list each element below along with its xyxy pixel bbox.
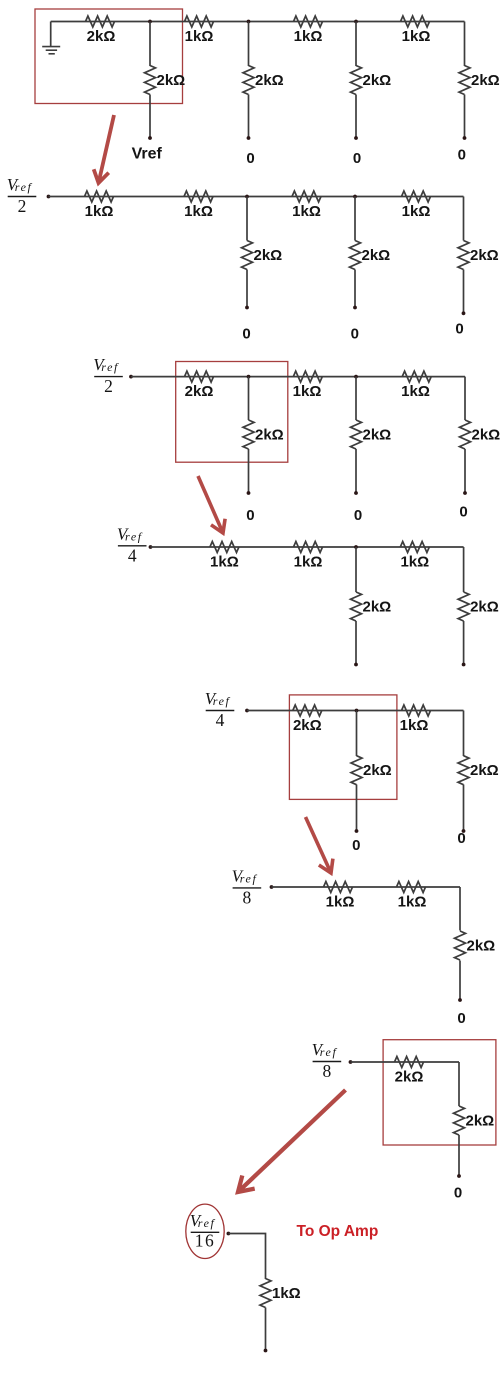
wire: stage5 shunt D upper — [463, 711, 465, 757]
resistor 2kΩ stage7 shunt — [454, 1106, 465, 1135]
svg-text:2kΩ: 2kΩ — [87, 28, 116, 45]
resistor 1kΩ stage1 series #4 — [401, 16, 430, 27]
svg-text:2kΩ: 2kΩ — [471, 72, 500, 89]
svg-text:4: 4 — [128, 545, 137, 565]
resistor 2kΩ stage3 shunt D — [460, 420, 471, 449]
svg-text:0: 0 — [457, 830, 465, 847]
wire: stage2 shunt C upper — [354, 197, 356, 241]
wire: stage1 shunt branch B upper — [248, 22, 250, 67]
svg-text:2kΩ: 2kΩ — [470, 247, 499, 264]
svg-text:0: 0 — [353, 150, 361, 167]
node stage4 input — [149, 545, 153, 549]
svg-text:8: 8 — [243, 887, 252, 907]
svg-text:ref: ref — [198, 1216, 216, 1230]
resistor 2kΩ stage3 shunt C — [351, 420, 362, 449]
red arrow stage7 to final — [238, 1090, 346, 1192]
node stage3 input — [129, 375, 133, 379]
resistor 1kΩ stage4 #1 — [210, 542, 239, 553]
wire: stage1 shunt branch A upper — [149, 22, 151, 67]
wire: stage2 shunt C lower — [354, 270, 356, 308]
resistor 1kΩ stage4 #3 — [400, 542, 429, 553]
node stage6 input — [270, 885, 274, 889]
resistor 2kΩ stage1 shunt D — [459, 66, 470, 95]
red arrow stage1 to stage2 — [94, 115, 114, 183]
wire: stage1 shunt branch D lower — [464, 95, 466, 139]
red highlight box around stage1 ground + 2k/2k section — [35, 9, 183, 104]
resistor 1kΩ stage2 #2 — [184, 191, 213, 202]
resistor 1kΩ stage3 #2 — [293, 371, 322, 382]
terminal stage7 — [457, 1174, 461, 1178]
resistor 2kΩ stage2 shunt D — [458, 241, 469, 270]
label fraction Vref/16 final — [190, 1211, 220, 1251]
resistor 1kΩ stage1 series #3 — [294, 16, 323, 27]
wire: stage4 top rail — [151, 546, 464, 548]
wire: stage1 ground stem — [50, 22, 52, 47]
resistor 2kΩ stage3 shunt B — [243, 420, 254, 449]
terminal stage1 A — [148, 136, 152, 140]
wire: stage4 shunt C lower — [355, 621, 357, 665]
svg-text:2kΩ: 2kΩ — [254, 247, 283, 264]
resistor 2kΩ stage1 series (leftmost) — [86, 16, 115, 27]
wire: stage2 shunt B lower — [246, 270, 248, 308]
resistor 2kΩ stage2 shunt C — [350, 241, 361, 270]
label fraction Vref/8 stage7 — [312, 1040, 342, 1081]
resistor 1kΩ stage4 #2 — [294, 542, 323, 553]
svg-text:0: 0 — [351, 325, 359, 342]
svg-text:ref: ref — [213, 694, 231, 708]
wire: stage1 shunt branch D upper — [464, 22, 466, 67]
terminal stage1 C — [354, 136, 358, 140]
wire: stage3 top rail — [131, 376, 465, 378]
ground symbol — [42, 47, 60, 54]
svg-text:1kΩ: 1kΩ — [400, 717, 429, 734]
wire: stage1 shunt branch B lower — [248, 95, 250, 139]
svg-text:1kΩ: 1kΩ — [401, 383, 430, 400]
svg-text:0: 0 — [459, 503, 467, 520]
node stage3-B junction — [247, 375, 251, 379]
svg-text:1kΩ: 1kΩ — [402, 203, 431, 220]
svg-text:0: 0 — [354, 507, 362, 524]
svg-text:1kΩ: 1kΩ — [210, 554, 239, 571]
svg-text:4: 4 — [216, 710, 225, 730]
svg-text:16: 16 — [195, 1230, 216, 1250]
svg-text:ref: ref — [320, 1045, 338, 1059]
terminal stage3 D — [463, 491, 467, 495]
terminal stage2 D — [462, 311, 466, 315]
wire: stage1 shunt branch A lower — [149, 95, 151, 139]
svg-text:2kΩ: 2kΩ — [363, 427, 392, 444]
wire: stage1 shunt branch C lower — [355, 95, 357, 139]
resistor 1kΩ stage3 #3 — [402, 371, 431, 382]
wire: stage6 top rail — [272, 886, 461, 888]
red ellipse around Vref/16 — [186, 1204, 224, 1258]
label fraction Vref/4 stage5 — [205, 689, 235, 730]
node stage5-C junction — [355, 709, 359, 713]
svg-text:1kΩ: 1kΩ — [400, 554, 429, 571]
resistor 2kΩ stage4 shunt C — [351, 592, 362, 621]
svg-text:2kΩ: 2kΩ — [185, 383, 214, 400]
wire: stage2 shunt D upper — [463, 197, 465, 241]
wire: stage4 shunt D upper — [463, 547, 465, 592]
svg-text:1kΩ: 1kΩ — [294, 554, 323, 571]
svg-text:0: 0 — [242, 325, 250, 342]
svg-text:0: 0 — [455, 321, 463, 338]
svg-text:2kΩ: 2kΩ — [395, 1069, 424, 1086]
terminal stage4 C — [354, 663, 358, 667]
wire: stage7 top rail — [351, 1061, 460, 1063]
wire: stage1 top rail — [51, 21, 465, 23]
svg-text:To Op Amp: To Op Amp — [297, 1223, 379, 1240]
label fraction Vref/8 stage6 — [232, 866, 262, 907]
svg-text:0: 0 — [246, 150, 254, 167]
svg-text:1kΩ: 1kΩ — [292, 203, 321, 220]
svg-text:1kΩ: 1kΩ — [326, 894, 355, 911]
resistor 2kΩ stage5 series — [293, 705, 322, 716]
wire: stage3 shunt D upper — [464, 377, 466, 420]
terminal stage1 B — [247, 136, 251, 140]
terminal stage2 B — [245, 306, 249, 310]
resistor 1kΩ stage1 series #2 — [185, 16, 214, 27]
svg-text:Vref: Vref — [132, 146, 163, 163]
svg-text:0: 0 — [246, 507, 254, 524]
wire: stage1 shunt branch C upper — [355, 22, 357, 67]
wire: stage3 shunt B lower — [248, 449, 250, 493]
wire: stage6 shunt lower — [459, 961, 461, 1001]
resistor 2kΩ stage5 shunt D — [458, 756, 469, 785]
resistor 1kΩ stage5 #2 — [402, 705, 431, 716]
node stage4-C junction — [354, 545, 358, 549]
wire: stage7 shunt upper — [458, 1062, 460, 1106]
terminal stage5 C — [355, 829, 359, 833]
wire: stage5 shunt D lower — [463, 785, 465, 832]
wire: stage3 shunt C lower — [355, 449, 357, 493]
terminal stage5 D — [462, 829, 466, 833]
svg-text:2: 2 — [104, 376, 113, 396]
label fraction Vref/2 stage2 — [7, 175, 37, 216]
node final output — [227, 1232, 231, 1236]
terminal stage1 D — [463, 136, 467, 140]
red arrow stage5 to stage6 — [306, 817, 333, 873]
terminal stage3 C — [354, 491, 358, 495]
svg-text:1kΩ: 1kΩ — [272, 1285, 301, 1302]
svg-text:1kΩ: 1kΩ — [294, 28, 323, 45]
wire: stage2 shunt B upper — [246, 197, 248, 241]
svg-text:1kΩ: 1kΩ — [402, 28, 431, 45]
resistor 2kΩ stage5 shunt C — [351, 756, 362, 785]
svg-text:2: 2 — [18, 196, 27, 216]
node stage2-C junction — [353, 195, 357, 199]
svg-text:0: 0 — [352, 837, 360, 854]
svg-text:0: 0 — [454, 1184, 462, 1201]
terminal stage2 C — [353, 306, 357, 310]
wire: stage4 shunt D lower — [463, 621, 465, 665]
svg-text:2kΩ: 2kΩ — [363, 72, 392, 89]
red arrow stage3 to stage4 — [198, 476, 225, 533]
svg-text:1kΩ: 1kΩ — [85, 203, 114, 220]
svg-text:2kΩ: 2kΩ — [470, 762, 499, 779]
resistor 1kΩ final — [260, 1279, 271, 1308]
svg-text:8: 8 — [323, 1061, 332, 1081]
svg-text:0: 0 — [458, 146, 466, 163]
wire: final lower lead — [265, 1308, 267, 1351]
wire: stage3 shunt C upper — [355, 377, 357, 420]
svg-text:ref: ref — [15, 180, 33, 194]
wire: stage5 shunt C upper — [356, 711, 358, 757]
svg-text:2kΩ: 2kΩ — [467, 938, 496, 955]
svg-text:1kΩ: 1kΩ — [398, 894, 427, 911]
svg-text:2kΩ: 2kΩ — [363, 762, 392, 779]
terminal stage4 D — [462, 663, 466, 667]
node stage2 input — [47, 195, 51, 199]
wire: stage6 shunt upper — [459, 887, 461, 931]
node stage1-A junction — [148, 20, 152, 24]
svg-text:1kΩ: 1kΩ — [185, 28, 214, 45]
wire: stage4 shunt C upper — [355, 547, 357, 592]
resistor 2kΩ stage4 shunt D — [458, 592, 469, 621]
resistor 1kΩ stage6 #2 — [397, 882, 426, 893]
svg-text:2kΩ: 2kΩ — [363, 599, 392, 616]
terminal stage6 — [458, 998, 462, 1002]
terminal stage3 B — [247, 491, 251, 495]
svg-text:ref: ref — [125, 529, 143, 543]
svg-text:2kΩ: 2kΩ — [255, 72, 284, 89]
resistor 2kΩ stage6 shunt — [455, 931, 466, 960]
resistor 2kΩ stage7 series — [395, 1057, 424, 1068]
terminal final — [264, 1349, 268, 1353]
resistor 1kΩ stage6 #1 — [324, 882, 353, 893]
svg-text:2kΩ: 2kΩ — [157, 72, 186, 89]
svg-text:ref: ref — [101, 360, 119, 374]
label fraction Vref/4 stage4 — [117, 524, 147, 565]
label fraction Vref/2 stage3 — [93, 355, 123, 396]
svg-text:ref: ref — [240, 871, 258, 885]
node stage3-C junction — [354, 375, 358, 379]
resistor 2kΩ stage2 shunt B — [242, 241, 253, 270]
svg-text:2kΩ: 2kΩ — [470, 599, 499, 616]
svg-text:1kΩ: 1kΩ — [293, 383, 322, 400]
red highlight box stage5 2k/2k section — [289, 695, 397, 800]
wire: stage3 shunt B upper — [248, 377, 250, 420]
resistor 1kΩ stage2 #1 — [85, 191, 114, 202]
svg-text:2kΩ: 2kΩ — [293, 717, 322, 734]
svg-text:2kΩ: 2kΩ — [466, 1113, 495, 1130]
svg-text:2kΩ: 2kΩ — [472, 427, 501, 444]
red highlight box stage3 2k/2k section — [176, 362, 288, 463]
wire: stage2 top rail — [49, 196, 464, 198]
resistor 2kΩ stage1 shunt B — [243, 66, 254, 95]
node stage5 input — [245, 709, 249, 713]
node stage7 input — [349, 1060, 353, 1064]
resistor 2kΩ stage1 shunt A — [145, 66, 156, 95]
svg-text:1kΩ: 1kΩ — [184, 203, 213, 220]
svg-text:2kΩ: 2kΩ — [255, 427, 284, 444]
wire: stage5 shunt C lower — [356, 785, 358, 832]
svg-text:2kΩ: 2kΩ — [362, 247, 391, 264]
resistor 1kΩ stage2 #3 — [292, 191, 321, 202]
node stage2-B junction — [245, 195, 249, 199]
node stage1-B junction — [247, 20, 251, 24]
wire: stage2 shunt D lower — [463, 270, 465, 314]
wire: stage7 shunt lower — [458, 1135, 460, 1176]
wire: stage5 top rail — [247, 710, 464, 712]
resistor 2kΩ stage3 series — [185, 371, 214, 382]
svg-text:0: 0 — [457, 1010, 465, 1027]
wire: stage3 shunt D lower — [464, 449, 466, 493]
red highlight box stage7 2k/2k section — [383, 1040, 496, 1145]
resistor 1kΩ stage2 #4 — [402, 191, 431, 202]
resistor 2kΩ stage1 shunt C — [351, 66, 362, 95]
node stage1-C junction — [354, 20, 358, 24]
wire: final L-shaped lead — [228, 1234, 265, 1280]
